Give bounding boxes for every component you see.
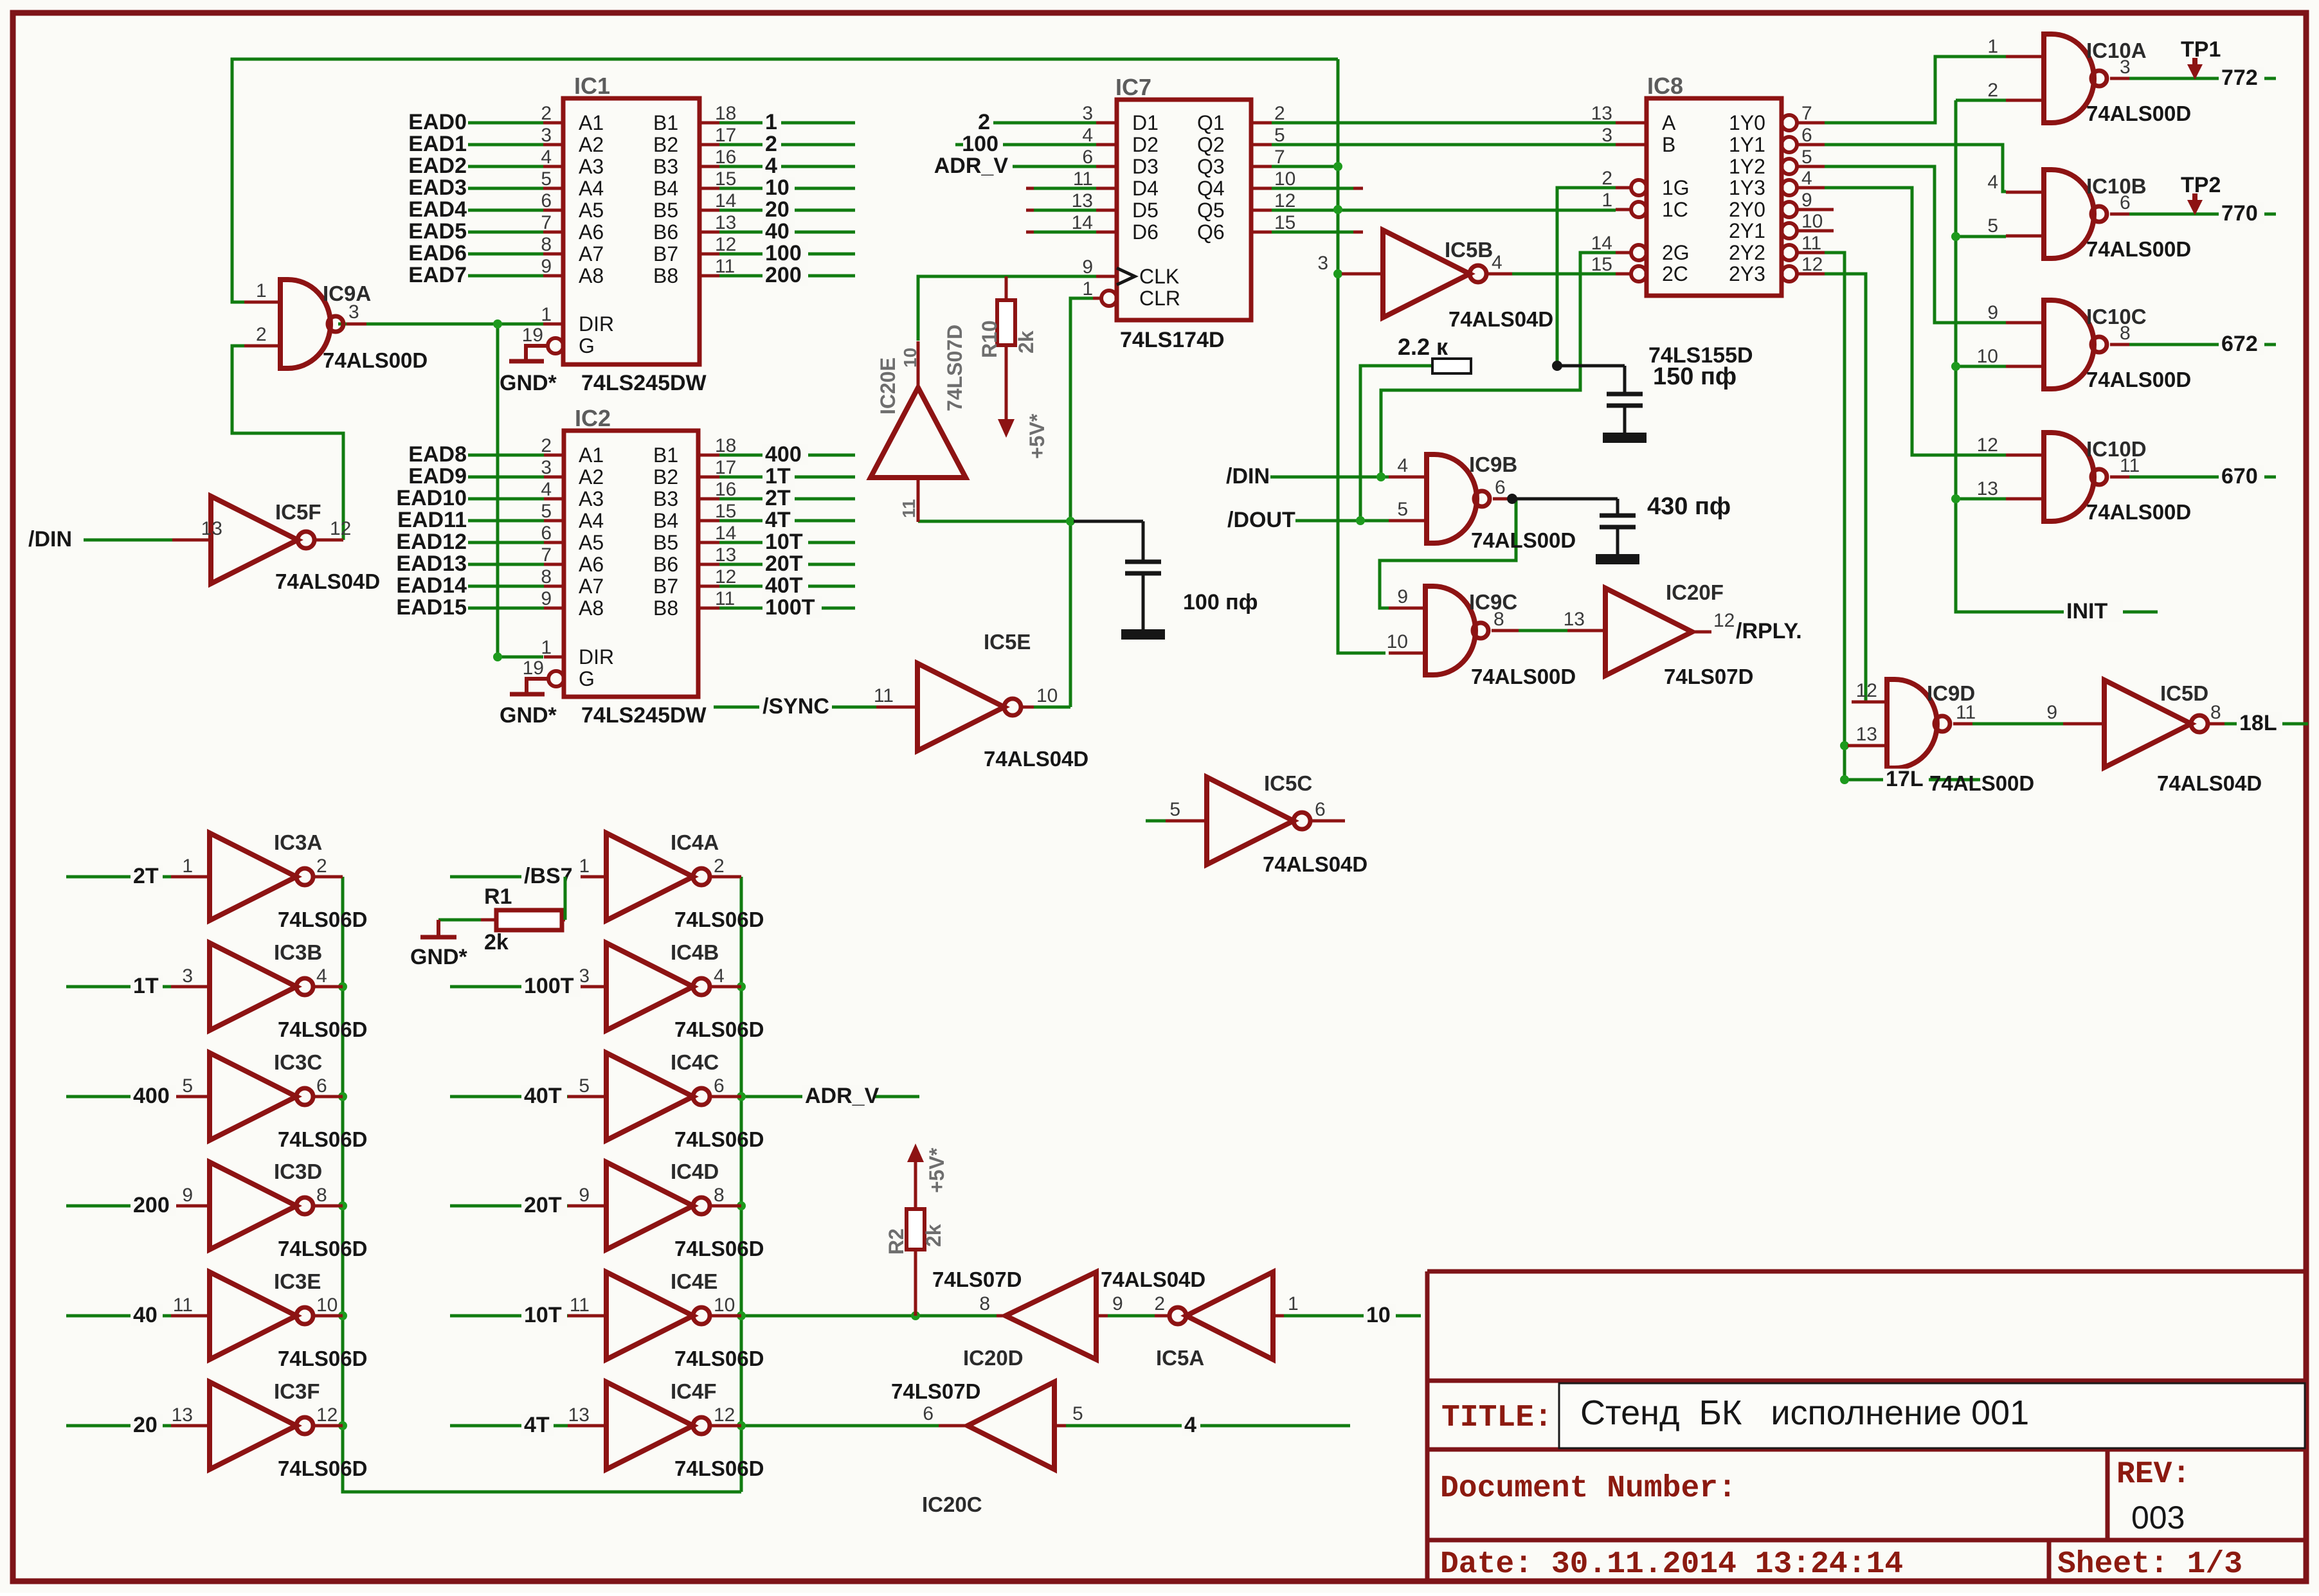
svg-text:20T: 20T [765, 551, 803, 576]
wire net EAD1 [468, 143, 546, 147]
svg-text:12: 12 [1713, 610, 1735, 631]
pin IC10B in1 [2006, 191, 2044, 194]
svg-text:CLK: CLK [1139, 265, 1179, 288]
svg-text:D6: D6 [1132, 220, 1159, 244]
svg-text:200: 200 [133, 1193, 170, 1217]
wire IC2 B7 net [719, 585, 855, 588]
pin IC20F.12 output [1692, 631, 1711, 634]
svg-text:74ALS04D: 74ALS04D [275, 569, 380, 593]
gate IC4F body [606, 1382, 710, 1469]
pin IC20F.13 [1567, 629, 1605, 632]
junction [338, 1421, 347, 1430]
pin IC2 B7 [698, 585, 719, 588]
pin IC10D output [2110, 476, 2129, 479]
wire IC10B.5 feed [1956, 235, 2006, 238]
wire D4 stub [1034, 187, 1096, 190]
svg-text:10: 10 [765, 175, 790, 200]
pin IC10D in2 [2006, 498, 2044, 501]
svg-text:IC2: IC2 [575, 405, 611, 431]
resistor R10 [997, 300, 1015, 345]
ground GND IC2 [527, 679, 548, 694]
pin IC9A.3 output [347, 323, 366, 326]
node 770 label [2219, 203, 2264, 224]
pin IC7 D4 [1096, 187, 1117, 190]
svg-text:2Y3: 2Y3 [1729, 262, 1765, 285]
pin IC1 A1 [543, 121, 563, 125]
svg-text:14: 14 [1591, 233, 1612, 254]
pin IC2 A8 [544, 607, 564, 610]
svg-text:A1: A1 [579, 111, 604, 134]
svg-text:B8: B8 [653, 596, 678, 620]
svg-text:6: 6 [1801, 125, 1812, 146]
svg-text:15: 15 [715, 168, 736, 190]
svg-text:B7: B7 [653, 242, 678, 265]
svg-text:11: 11 [173, 1295, 193, 1316]
node 20 label [762, 199, 795, 220]
svg-text:15: 15 [715, 501, 736, 522]
junction [338, 1311, 347, 1320]
svg-text:14: 14 [715, 190, 736, 211]
svg-text:EAD14: EAD14 [396, 573, 467, 598]
svg-text:TP1: TP1 [2181, 37, 2221, 62]
svg-text:B2: B2 [653, 133, 678, 156]
pin IC2 B8 [698, 607, 719, 610]
pin IC9C.10 [1389, 652, 1425, 655]
node 200 label [131, 1195, 176, 1215]
svg-text:74LS06D: 74LS06D [674, 1237, 764, 1260]
svg-text:G: G [579, 334, 595, 357]
svg-text:74LS155D: 74LS155D [1648, 343, 1753, 368]
svg-text:12: 12 [1977, 435, 1998, 456]
pin IC2 B6 [698, 563, 719, 566]
svg-text:670: 670 [2221, 464, 2258, 489]
IC IC1 74LS245DW box [563, 98, 699, 364]
svg-text:2.2 к: 2.2 к [1398, 334, 1448, 360]
svg-text:IC3D: IC3D [274, 1160, 322, 1183]
pin IC4E output [710, 1314, 741, 1318]
svg-text:EAD13: EAD13 [396, 551, 467, 576]
gate IC4B body [606, 943, 710, 1030]
svg-text:EAD6: EAD6 [408, 241, 467, 265]
pin IC8 1C [1631, 202, 1647, 217]
svg-text:IC4E: IC4E [671, 1269, 717, 1293]
pin IC20E.10 output [917, 341, 920, 388]
pin IC5F.12 output [314, 539, 343, 542]
pin IC7 Q2 [1251, 143, 1272, 147]
svg-text:1C: 1C [1662, 198, 1688, 221]
svg-text:2: 2 [1274, 103, 1285, 124]
pin IC2 B1 [698, 454, 719, 457]
svg-text:74ALS00D: 74ALS00D [1929, 771, 2034, 795]
svg-text:18L: 18L [2239, 711, 2277, 735]
svg-text:11: 11 [874, 685, 894, 706]
svg-text:74LS06D: 74LS06D [674, 908, 764, 931]
gate IC4A body [606, 833, 710, 920]
svg-text:74LS06D: 74LS06D [278, 1127, 367, 1151]
pin IC10C in1 [2006, 321, 2044, 325]
gate IC10A body [2044, 34, 2107, 123]
pin IC4A output [710, 875, 741, 879]
svg-text:G: G [579, 667, 595, 690]
svg-text:4: 4 [1184, 1413, 1196, 1437]
svg-text:/DOUT: /DOUT [1227, 508, 1295, 532]
ground GND IC1 [526, 346, 548, 361]
wire IC4A input [450, 875, 568, 879]
wire IC10D.13 feed [1956, 498, 2006, 501]
pin IC3B input [171, 985, 210, 989]
pin IC4D output [710, 1205, 741, 1208]
wire /DIN to IC5F.13 [84, 539, 172, 542]
svg-text:74ALS04D: 74ALS04D [2157, 771, 2262, 795]
svg-text:4: 4 [1082, 125, 1093, 146]
junction [1951, 494, 1960, 503]
svg-text:6: 6 [714, 1075, 725, 1097]
svg-text:6: 6 [541, 190, 552, 211]
pin IC1 G bubble [548, 338, 563, 354]
svg-text:8: 8 [1493, 609, 1504, 630]
wire common strobe bus x3042 to INIT [1956, 100, 2158, 612]
svg-text:3: 3 [1602, 125, 1612, 146]
gate IC5D body [2104, 680, 2208, 767]
node 1T label [131, 976, 163, 996]
pin IC2 A7 [544, 585, 564, 588]
svg-text:A: A [1662, 111, 1676, 134]
pin IC9A.1 [244, 301, 280, 304]
svg-text:16: 16 [715, 147, 736, 168]
svg-text:1Y2: 1Y2 [1729, 155, 1765, 178]
svg-text:7: 7 [541, 212, 552, 233]
buffer IC20E body [871, 388, 966, 478]
svg-text:B: B [1662, 133, 1675, 156]
node 40T label [521, 1086, 567, 1106]
wire /DIN label to IC9B.4 [1270, 476, 1389, 479]
svg-text:IC10B: IC10B [2086, 174, 2147, 198]
pin IC2 B3 [698, 498, 719, 501]
wire CLK net IC20E-out to IC7.CLK with R10 tap [918, 276, 1096, 341]
svg-text:1: 1 [1987, 36, 1998, 57]
wire net EAD8 [468, 454, 546, 457]
pin IC1 B4 [699, 187, 719, 190]
svg-text:IC5E: IC5E [984, 630, 1031, 654]
gate IC4E body [606, 1272, 710, 1359]
svg-text:B1: B1 [653, 444, 678, 467]
pin 2Y0 open stub [1825, 208, 1834, 211]
svg-text:74LS07D: 74LS07D [932, 1268, 1022, 1291]
svg-text:9: 9 [579, 1185, 590, 1206]
pin IC10B in2 [2006, 235, 2044, 238]
wire IC1 B4 net [719, 187, 855, 190]
svg-text:74LS07D: 74LS07D [891, 1379, 980, 1403]
wire IC4 output bus [740, 877, 743, 1492]
svg-text:74LS06D: 74LS06D [278, 908, 367, 931]
svg-text:8: 8 [2120, 323, 2131, 344]
wire IC9C-out to IC20F.13 [1519, 629, 1567, 632]
pin IC5D.8 output [2208, 722, 2224, 726]
pin IC10D in1 [2006, 454, 2044, 457]
svg-text:4: 4 [1987, 172, 1998, 193]
svg-text:IC3F: IC3F [274, 1379, 320, 1403]
pin IC20D.8 [997, 1314, 1006, 1318]
svg-text:2: 2 [1987, 80, 1998, 101]
wire D6 stub [1034, 231, 1096, 234]
svg-text:11: 11 [1801, 233, 1821, 254]
pin IC20D.9 output [1096, 1314, 1108, 1318]
svg-text:B4: B4 [653, 177, 678, 200]
svg-text:4: 4 [1801, 168, 1812, 189]
svg-text:B6: B6 [653, 553, 678, 576]
wire Q1 to IC8.A [1272, 121, 1616, 125]
svg-text:74ALS04D: 74ALS04D [1101, 1268, 1205, 1291]
gate IC10B body [2044, 170, 2107, 258]
wire IC20D.9 to IC5A.2 [1108, 1314, 1155, 1318]
wire IC2 B4 net [719, 519, 855, 523]
wire IC4D input [450, 1205, 568, 1208]
svg-text:TP2: TP2 [2181, 173, 2221, 197]
wire IC9D-out to IC5D.9 [1960, 722, 2063, 726]
title block Sheet divider [2047, 1540, 2052, 1580]
pin IC20E.11 input [917, 478, 920, 522]
pin IC5D.9 [2063, 722, 2104, 726]
pin IC3A output [313, 875, 343, 879]
svg-text:/DIN: /DIN [28, 527, 72, 551]
svg-text:74LS06D: 74LS06D [674, 1457, 764, 1480]
svg-text:Document Number:: Document Number: [1440, 1471, 1737, 1506]
svg-text:13: 13 [1072, 190, 1093, 211]
node 10T label [762, 532, 808, 552]
svg-text:7: 7 [541, 544, 552, 566]
svg-text:20: 20 [133, 1413, 158, 1437]
wire IC1 B1 net [719, 121, 855, 125]
svg-text:74LS06D: 74LS06D [278, 1018, 367, 1041]
pin IC2 A1 [544, 454, 564, 457]
svg-text:IC4A: IC4A [671, 830, 719, 854]
svg-text:A7: A7 [579, 575, 604, 598]
node 10 label [762, 177, 795, 198]
svg-text:74LS07D: 74LS07D [943, 325, 966, 411]
svg-text:003: 003 [2131, 1500, 2185, 1536]
wire IC10D output 670 [2125, 476, 2276, 479]
svg-text:Q5: Q5 [1197, 199, 1225, 222]
svg-text:3: 3 [182, 965, 193, 987]
wire 1Y2 to IC10C.9 [1825, 166, 2006, 323]
junction black IC9B out [1507, 494, 1517, 504]
node 20 label [131, 1415, 163, 1435]
capacitor 150pf [1560, 364, 1625, 368]
svg-text:ADR_V: ADR_V [805, 1084, 880, 1108]
buffer IC20C body [968, 1382, 1054, 1469]
pin IC3F output [313, 1424, 343, 1428]
pin IC9B.5 [1389, 519, 1427, 523]
svg-text:40: 40 [133, 1303, 158, 1327]
pin IC1 B2 [699, 143, 719, 147]
gate IC5C body [1207, 777, 1310, 865]
svg-text:EAD7: EAD7 [408, 263, 467, 287]
wire net EAD4 [468, 209, 546, 212]
svg-text:1: 1 [1602, 190, 1612, 211]
wire 2G to /DIN junction [1381, 253, 1616, 477]
svg-text:12: 12 [1801, 254, 1823, 275]
gate IC9B body [1427, 454, 1490, 543]
node 40 label [762, 221, 795, 242]
svg-text:REV:: REV: [2116, 1457, 2190, 1492]
pin IC8 2G [1631, 245, 1647, 260]
svg-text:17: 17 [715, 457, 736, 478]
svg-text:74LS245DW: 74LS245DW [581, 703, 707, 728]
svg-text:74LS07D: 74LS07D [1664, 665, 1753, 688]
wire IC5A output net 10 [1284, 1314, 1421, 1318]
pin IC2 B4 [698, 519, 719, 523]
pin IC3E output [313, 1314, 343, 1318]
pin IC1 B1 [699, 121, 719, 125]
wire IC4C input [450, 1095, 568, 1098]
wire 2Y3 to IC9D.12 [1825, 274, 1887, 702]
svg-text:17L: 17L [1886, 767, 1924, 791]
node /SYNC label [759, 696, 832, 717]
pin IC2 DIR [544, 656, 564, 659]
pin IC4D input [568, 1205, 606, 1208]
node 2T label [131, 866, 163, 886]
pin IC1 A7 [543, 253, 563, 256]
junction [1840, 775, 1849, 784]
junction [1356, 516, 1365, 525]
svg-text:672: 672 [2221, 332, 2258, 356]
svg-text:IC1: IC1 [574, 73, 610, 99]
svg-text:B5: B5 [653, 531, 678, 554]
pin IC7 D1 [1096, 121, 1117, 125]
node ADR_V label mid [802, 1086, 875, 1106]
pin IC1 DIR [543, 323, 563, 326]
wire net EAD15 [468, 607, 546, 610]
wire IC1 B7 net [719, 253, 855, 256]
svg-text:A4: A4 [579, 509, 604, 532]
pin IC9D.11 output [1953, 722, 1972, 726]
svg-text:Date: 30.11.2014 13:24:14: Date: 30.11.2014 13:24:14 [1440, 1547, 1903, 1582]
pin IC10A output [2110, 77, 2129, 80]
svg-text:12: 12 [715, 234, 736, 255]
title block REV divider [2106, 1449, 2110, 1540]
pin IC3A input [171, 875, 210, 879]
wire IC5B-out to 2C [1512, 273, 1616, 276]
svg-text:8: 8 [541, 566, 552, 587]
svg-text:9: 9 [2046, 702, 2057, 723]
svg-text:10: 10 [900, 348, 920, 368]
node 400 label [762, 444, 808, 465]
wire IC4B input [450, 985, 568, 989]
gate IC3B body [210, 943, 313, 1030]
svg-text:A1: A1 [579, 444, 604, 467]
svg-text:5: 5 [1169, 799, 1180, 820]
resistor R2 [907, 1209, 925, 1250]
pin IC2 A4 [544, 519, 564, 523]
node 17L label [1883, 769, 1929, 789]
wire IC10B output 770 [2125, 213, 2276, 216]
wire 1G to 2.2k junction [1557, 188, 1616, 366]
svg-text:IC10C: IC10C [2086, 305, 2147, 328]
svg-text:IC3B: IC3B [274, 940, 322, 964]
gate IC10D body [2044, 433, 2107, 521]
pin IC1 B6 [699, 231, 719, 234]
svg-text:A8: A8 [579, 596, 604, 620]
junction [1951, 232, 1960, 241]
svg-text:D4: D4 [1132, 177, 1159, 200]
pin IC8 1Y2 bubble [1782, 159, 1797, 174]
pin IC9C.9 [1389, 607, 1425, 610]
svg-text:40T: 40T [524, 1084, 562, 1108]
svg-text:74ALS04D: 74ALS04D [984, 747, 1088, 771]
svg-text:IC3C: IC3C [274, 1050, 322, 1074]
svg-text:A7: A7 [579, 242, 604, 265]
gate IC9C body [1425, 586, 1488, 675]
gate IC4D body [606, 1162, 710, 1250]
svg-text:5: 5 [579, 1075, 590, 1097]
wire IC4E-out to IC20D.8 with R2 tap [741, 1314, 997, 1318]
wire IC3E input [66, 1314, 171, 1318]
node 18L label [2237, 713, 2282, 733]
wire net EAD6 [468, 253, 546, 256]
svg-text:B4: B4 [653, 509, 678, 532]
svg-text:2: 2 [714, 856, 725, 877]
svg-text:A2: A2 [579, 133, 604, 156]
svg-text:10: 10 [316, 1295, 338, 1316]
svg-text:12: 12 [1856, 680, 1877, 701]
svg-text:1Y3: 1Y3 [1729, 176, 1765, 199]
svg-text:2k: 2k [922, 1224, 945, 1247]
wire D2 net label 100 [1003, 143, 1096, 147]
svg-text:5: 5 [1072, 1403, 1083, 1424]
wire 2Y2 to 17L and IC9D.13 [1825, 253, 1980, 780]
svg-text:IC5D: IC5D [2160, 681, 2208, 705]
pin IC2 B5 [698, 541, 719, 544]
wire 2.2k left to /DOUT junction [1360, 366, 1432, 521]
svg-text:12: 12 [1274, 190, 1295, 211]
pin IC9B.4 [1389, 476, 1427, 479]
wire IC20E.11 to junction and IC5E-out / CLR riser [918, 520, 1070, 523]
svg-text:B3: B3 [653, 487, 678, 510]
svg-text:10: 10 [1366, 1303, 1391, 1327]
svg-text:2Y2: 2Y2 [1729, 241, 1765, 264]
junction [338, 1092, 347, 1101]
svg-text:100: 100 [962, 132, 998, 156]
wire IC20C output to bus [741, 1424, 939, 1428]
svg-text:GND*: GND* [500, 703, 557, 728]
gate IC5F body [211, 496, 314, 584]
resistor R1 [496, 910, 562, 930]
svg-text:2Y0: 2Y0 [1729, 198, 1765, 221]
node 2 label [762, 134, 781, 154]
svg-text:R1: R1 [484, 884, 512, 909]
pin IC7 Q4 [1251, 187, 1272, 190]
pin IC8 2C [1631, 266, 1647, 282]
wire IC10C output 672 [2125, 343, 2276, 346]
wire IC3D input [66, 1205, 171, 1208]
IC IC8 74LS155D box [1647, 98, 1782, 296]
svg-text:2Y1: 2Y1 [1729, 219, 1765, 242]
pin IC20C.5 [1054, 1424, 1066, 1428]
pin IC7 D3 [1096, 165, 1117, 168]
svg-text:2: 2 [541, 435, 552, 456]
svg-text:74LS174D: 74LS174D [1120, 328, 1225, 352]
junction [493, 652, 502, 661]
svg-text:1Y1: 1Y1 [1729, 133, 1765, 156]
svg-text:13: 13 [1591, 103, 1612, 124]
svg-text:EAD10: EAD10 [396, 486, 467, 510]
svg-text:10: 10 [1801, 211, 1823, 232]
svg-text:4: 4 [541, 479, 552, 500]
pin IC1 A2 [543, 143, 563, 147]
pin IC3C input [171, 1095, 210, 1098]
node 100T label [762, 597, 822, 618]
svg-text:10: 10 [1977, 346, 1998, 367]
